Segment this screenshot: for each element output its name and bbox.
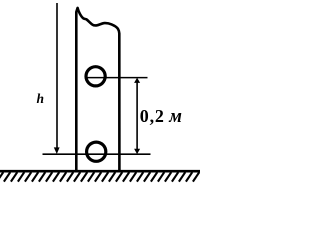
- lower hole: [87, 142, 106, 161]
- dimension line 0.2 m: [136, 81, 138, 149]
- upper hole: [86, 67, 105, 86]
- svg-text:м: м: [168, 107, 182, 127]
- arrow h down: [54, 147, 60, 154]
- svg-text:0,2: 0,2: [140, 106, 165, 126]
- svg-text:h: h: [37, 91, 45, 106]
- dimension line h: [56, 3, 58, 149]
- ground line: [0, 170, 200, 173]
- lower level line: [43, 153, 151, 155]
- ground hatching: [0, 172, 199, 181]
- tank wall (torn top, left and right edges): [76, 8, 119, 171]
- upper level line: [86, 77, 148, 79]
- arrow up: [134, 78, 140, 83]
- arrow down: [134, 149, 140, 154]
